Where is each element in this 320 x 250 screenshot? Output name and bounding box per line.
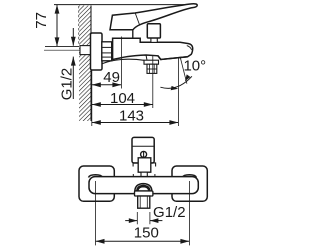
svg-text:49: 49: [103, 69, 120, 86]
handle (side view lever): [110, 4, 197, 38]
extension line: spout tip vertical (143 right / angle ref): [177, 58, 179, 127]
dimension 49: [92, 69, 122, 87]
thread width extension lines: [136, 212, 138, 224]
angle 10 degree slanted line: [180, 58, 187, 84]
svg-text:10°: 10°: [183, 58, 206, 75]
dimension 104: [92, 90, 153, 107]
dimension 77: [33, 5, 59, 47]
hex nut (side view): [102, 42, 112, 61]
wire: pipe centerline: [44, 49, 92, 51]
shower outlet connector (side view): [144, 55, 159, 73]
spout tip inner lip line: [187, 46, 192, 50]
left wall plate: [79, 166, 114, 201]
body bar (front view): [89, 177, 198, 194]
shower thread G1/2 (front view): [138, 196, 150, 208]
svg-text:104: 104: [110, 90, 135, 107]
union nut bumps above bar: [89, 175, 103, 178]
extension line: cartridge axis (49 right): [120, 37, 122, 89]
aerator wedge under spout tip: [158, 56, 188, 60]
extension line: wall face (dims left): [91, 70, 93, 126]
body lower casting sweep: [102, 59, 144, 64]
right wall plate: [172, 166, 207, 201]
dimension 143: [92, 107, 179, 125]
dimension 150: [96, 225, 190, 244]
diverter knob front face: [138, 158, 151, 172]
pipe G1/2 nipple through wall: [80, 46, 91, 55]
wall: [79, 6, 91, 122]
svg-text:77: 77: [33, 12, 50, 29]
handle (front view): [132, 137, 154, 163]
svg-text:150: 150: [134, 225, 159, 242]
angle arc with arrows: [160, 74, 192, 90]
extension line right connection: [188, 181, 190, 245]
thread width arrows (pointing inward): [125, 218, 162, 223]
svg-text:G1/2: G1/2: [58, 68, 75, 101]
indicator circle on handle: [141, 151, 147, 157]
svg-text:143: 143: [119, 107, 144, 124]
extension line left connection: [95, 181, 97, 245]
body side ticks above bar: [133, 174, 155, 177]
knob neck (front view): [141, 172, 147, 177]
diverter knob (side view): [147, 24, 160, 43]
wire: top extension line from handle top: [54, 4, 193, 6]
mounting brackets beside knob (front view): [133, 163, 156, 167]
wire: extension line pipe top (77 bottom): [45, 45, 79, 47]
escutcheon (side view): [91, 33, 103, 70]
dimension G1/2 arrows at pipe (side view): [58, 28, 75, 100]
faucet body + spout (side view): [113, 38, 193, 59]
extension line: outlet axis (104 right): [152, 56, 154, 108]
svg-text:G1/2: G1/2: [153, 204, 186, 221]
spout end (front view): [135, 184, 152, 191]
spout flange (front view): [135, 191, 153, 196]
